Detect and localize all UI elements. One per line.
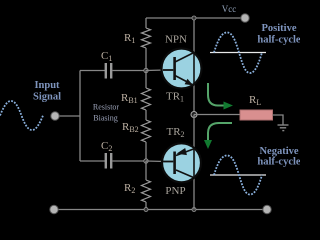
current arrow positive half xyxy=(208,83,233,110)
wire RL to ground xyxy=(273,115,284,125)
node Vcc terminal xyxy=(241,14,249,22)
Positive half-cycle label xyxy=(257,23,300,46)
capacitor C1 xyxy=(80,50,146,79)
svg-text:Vcc: Vcc xyxy=(222,4,237,14)
svg-text:half-cycle: half-cycle xyxy=(257,157,300,168)
output waveform negative midline xyxy=(210,174,266,176)
svg-text:Input: Input xyxy=(34,80,60,91)
wire R1 to base node xyxy=(145,48,147,70)
node junction R2-rail xyxy=(144,208,148,212)
node bottom-left terminal xyxy=(50,205,58,213)
output waveform negative sine xyxy=(214,156,262,195)
ground xyxy=(278,125,289,131)
output waveform positive midline xyxy=(210,52,266,54)
svg-text:NPN: NPN xyxy=(165,34,187,46)
Input Signal label xyxy=(33,80,61,103)
svg-text:Signal: Signal xyxy=(33,92,61,103)
wire PNP emitter-collector vertical xyxy=(193,115,195,210)
wire base to TR2 xyxy=(146,160,165,163)
current arrow negative half xyxy=(204,123,232,149)
svg-text:Biasing: Biasing xyxy=(93,114,117,123)
wire top rail Vcc xyxy=(146,17,245,19)
resistor RB2 xyxy=(122,120,151,142)
resistor RL xyxy=(240,94,273,120)
resistor R1 xyxy=(124,28,151,48)
capacitor C2 xyxy=(80,140,146,169)
input signal sine wave xyxy=(0,101,43,130)
node input terminal xyxy=(51,112,59,120)
wire input lead xyxy=(55,115,80,117)
wire bottom rail xyxy=(54,209,267,211)
Negative half-cycle label xyxy=(257,146,300,168)
svg-text:Negative: Negative xyxy=(259,146,298,157)
node NPN base junction xyxy=(144,68,148,72)
node output junction xyxy=(191,112,197,118)
wire input bus vertical xyxy=(79,71,81,162)
node junction collector-rail xyxy=(192,16,196,20)
svg-text:Positive: Positive xyxy=(262,23,297,34)
svg-text:half-cycle: half-cycle xyxy=(257,35,300,46)
resistor RB1 xyxy=(121,71,151,111)
Resistor Biasing label xyxy=(93,103,120,123)
transistor TR1 NPN xyxy=(162,49,202,89)
svg-text:PNP: PNP xyxy=(165,185,185,197)
wire RB1-RB2 xyxy=(145,110,147,120)
node junction TR2-rail xyxy=(192,208,196,212)
node bottom-right terminal xyxy=(263,205,271,213)
output waveform positive sine xyxy=(214,33,262,74)
wire RB2 to PNP base node xyxy=(145,142,147,161)
wire R1 branch xyxy=(145,18,147,28)
resistor R2 xyxy=(124,161,151,210)
node PNP base junction xyxy=(144,159,148,163)
wire output to RL xyxy=(194,114,240,116)
wire base to TR1 xyxy=(146,69,165,72)
wire NPN collector-emitter vertical xyxy=(193,18,195,115)
transistor TR2 PNP xyxy=(162,143,201,182)
svg-text:Resistor: Resistor xyxy=(93,103,120,112)
